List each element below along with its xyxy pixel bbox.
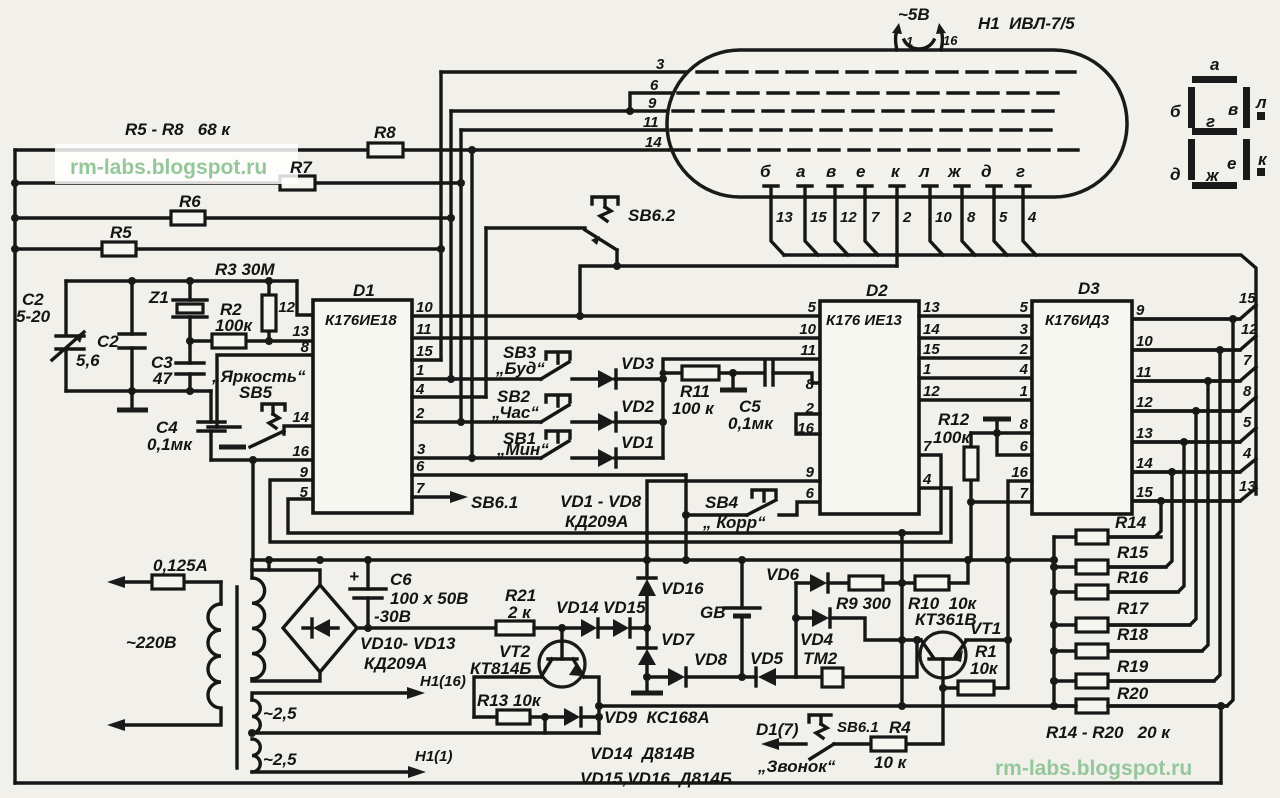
- resistor R12: [933, 410, 978, 560]
- svg-text:б: б: [760, 162, 771, 181]
- svg-text:11: 11: [643, 114, 659, 131]
- svg-text:SB4: SB4: [705, 493, 739, 512]
- wire H1(1) filament: [252, 748, 453, 778]
- svg-text:R8: R8: [374, 123, 396, 142]
- diode VD15: [603, 598, 647, 637]
- bridge rectifier VD10-VD13: [283, 585, 456, 673]
- tube pin 13 lead: [764, 186, 793, 255]
- svg-text:а: а: [1210, 55, 1219, 74]
- wire D3.6 jog up: [997, 433, 1032, 455]
- wire row R7: [15, 181, 461, 184]
- svg-text:SB6.2: SB6.2: [628, 206, 676, 225]
- wire bridge right to R21 row: [357, 626, 496, 629]
- wire D2.9 to -30V rail: [647, 481, 820, 560]
- svg-text:9: 9: [648, 95, 657, 112]
- IC D2 K176IE13: [820, 301, 919, 514]
- svg-text:в: в: [1228, 100, 1238, 119]
- touch contact T at D3.8: [995, 420, 998, 433]
- svg-text:R3 30М: R3 30М: [215, 260, 275, 279]
- node dot x663 VD2: [659, 418, 667, 426]
- fuse FU 0,125A: [107, 556, 221, 589]
- resistor R14: [1054, 513, 1161, 544]
- node dot left border R5: [11, 245, 19, 253]
- svg-text:D3: D3: [1078, 279, 1100, 298]
- node dot rail x270: [265, 556, 273, 564]
- node dot C3 bottom: [186, 387, 194, 395]
- filament arrow 1: [896, 28, 898, 50]
- svg-text:R19: R19: [1117, 657, 1149, 676]
- svg-text:6: 6: [806, 485, 815, 502]
- center tap row wire: [252, 731, 599, 734]
- svg-text:14: 14: [645, 134, 662, 151]
- wire x902 down from y533: [900, 533, 903, 583]
- svg-text:8: 8: [806, 376, 815, 393]
- svg-text:R5: R5: [110, 223, 132, 242]
- wire D1.4 row: [412, 395, 486, 398]
- resistor R7: [280, 176, 315, 190]
- left border bus wire: [13, 150, 16, 783]
- grid3 dashed: [697, 70, 1075, 73]
- node dot rail R14 common: [1050, 556, 1058, 564]
- capacitor C3 47: [188, 341, 191, 391]
- wire H1(16) filament: [252, 673, 466, 700]
- node dot SB3 row x451: [447, 375, 455, 383]
- svg-text:0,125А: 0,125А: [153, 556, 208, 575]
- segment e bar: [1243, 139, 1250, 180]
- ground bar VD7: [631, 691, 663, 696]
- node dot rail x320: [316, 556, 324, 564]
- transformer secondary2: [252, 700, 260, 733]
- wire D2.15 to D3.2: [919, 356, 1032, 359]
- svg-text:4: 4: [1019, 361, 1029, 378]
- svg-text:rm-labs.blogspot.ru: rm-labs.blogspot.ru: [995, 757, 1192, 780]
- svg-text:11: 11: [800, 342, 816, 359]
- wire secondary1 top to rail: [250, 560, 253, 578]
- svg-text:H1 ИВЛ-7/5: H1 ИВЛ-7/5: [978, 14, 1075, 33]
- svg-text:6: 6: [416, 458, 425, 475]
- resistor R2: [212, 334, 246, 348]
- vertical x1208 row11 to R18: [1108, 381, 1208, 651]
- node dot R9-R10 x902: [898, 579, 906, 587]
- svg-text:+: +: [349, 567, 359, 586]
- svg-text:7: 7: [1243, 352, 1252, 369]
- tube pin 5 lead: [987, 186, 1008, 255]
- svg-text:~2,5: ~2,5: [263, 704, 297, 723]
- svg-text:VD8: VD8: [694, 650, 728, 669]
- filament arrow 16: [940, 28, 942, 50]
- svg-text:R4: R4: [889, 718, 911, 737]
- node dot rail x902: [898, 702, 906, 710]
- svg-text:100 к: 100 к: [672, 399, 715, 418]
- right bus branch 7: [1132, 352, 1256, 381]
- bus vertical x472 grid14: [470, 150, 473, 458]
- wire grid9 row: [451, 109, 671, 112]
- grid6 dashed: [678, 91, 1066, 94]
- svg-text:е: е: [1227, 154, 1236, 173]
- right bus branch 15: [1132, 290, 1256, 319]
- svg-text:15: 15: [1136, 484, 1153, 501]
- wire SB1 to VD1: [572, 456, 598, 459]
- node dot x580 on D2.5 row: [576, 312, 584, 320]
- svg-text:13: 13: [1136, 425, 1153, 442]
- wire D3.14 row: [1132, 470, 1240, 473]
- svg-text:12: 12: [1136, 394, 1153, 411]
- svg-text:9: 9: [806, 464, 815, 481]
- node dot VT1 collector x902: [898, 636, 906, 644]
- svg-text:~5В: ~5В: [898, 5, 930, 24]
- wire pin16 node down to -30V rail: [251, 460, 254, 560]
- switch SB6.1 actuator: [809, 715, 831, 724]
- svg-text:13: 13: [776, 209, 793, 226]
- node dot SB1 row x472: [468, 454, 476, 462]
- switch SB2 actuator: [546, 395, 570, 406]
- R14-R20 common vertical: [1052, 537, 1055, 706]
- resistor R8: [368, 143, 403, 157]
- resistor R17: [1050, 599, 1190, 632]
- wire D3.11 row: [1132, 379, 1240, 382]
- node dot VD8 row x647: [643, 673, 651, 681]
- svg-text:R13 10к: R13 10к: [477, 691, 542, 710]
- svg-text:5-20: 5-20: [16, 307, 51, 326]
- svg-text:2: 2: [415, 405, 425, 422]
- svg-text:4: 4: [922, 471, 932, 488]
- oscillator bottom rail wire: [66, 389, 211, 392]
- switch SB3 blade: [541, 362, 569, 379]
- svg-text:12: 12: [840, 209, 857, 226]
- resistor R10: [908, 560, 978, 613]
- node dot rail SB4: [682, 556, 690, 564]
- svg-text:VD16: VD16: [661, 579, 704, 598]
- node dot rail D3.16: [1004, 556, 1012, 564]
- svg-text:7: 7: [871, 209, 880, 226]
- svg-text:R5 - R8 68 к: R5 - R8 68 к: [125, 120, 231, 139]
- transistor VT2 KT814B: [470, 628, 585, 687]
- svg-text:VD3: VD3: [621, 354, 655, 373]
- wire D1.11 to D2.10: [412, 336, 820, 339]
- svg-text:GВ: GВ: [700, 603, 726, 622]
- node dot C2 bottom: [128, 387, 136, 395]
- svg-text:10: 10: [1136, 333, 1153, 350]
- diode VD5: [750, 649, 796, 686]
- bus vertical x486 SB6.2: [484, 228, 487, 397]
- svg-text:15: 15: [1239, 290, 1256, 307]
- sensor TM2: [796, 640, 917, 687]
- diode VD16 vertical: [638, 560, 704, 628]
- diode VD14: [556, 598, 613, 637]
- switch SB6.2 actuator: [592, 197, 618, 207]
- vertical x663 diode bus to D2.11: [663, 359, 820, 458]
- node dot center tap: [248, 729, 256, 737]
- switch SB4 wire left: [686, 513, 747, 516]
- svg-text:КТ361В: КТ361В: [915, 610, 977, 629]
- resistor R6: [171, 211, 205, 225]
- transformer secondary1: [252, 578, 265, 679]
- svg-text:VD15,VD16 Д814Б: VD15,VD16 Д814Б: [580, 769, 732, 788]
- filament arc: [904, 40, 934, 49]
- svg-text:16: 16: [1011, 464, 1028, 481]
- svg-text:3: 3: [656, 56, 665, 73]
- diode VD1: [598, 433, 663, 467]
- svg-text:VD1 - VD8: VD1 - VD8: [560, 492, 642, 511]
- svg-text:13: 13: [292, 323, 309, 340]
- wire D1.3 row SB1: [412, 456, 541, 459]
- segment a bar: [1192, 76, 1237, 83]
- wire AC top link: [252, 570, 320, 585]
- svg-text:2: 2: [902, 209, 912, 226]
- capacitor C4 top lead wire: [209, 391, 212, 460]
- node dot C6 bottom: [364, 624, 372, 632]
- segment zh bar: [1192, 182, 1237, 189]
- node dot left border R6: [11, 214, 19, 222]
- svg-text:R9 300: R9 300: [836, 594, 891, 613]
- node dot rail C6: [364, 556, 372, 564]
- quartz Z1: [188, 281, 191, 341]
- wire D3.7 to R12: [971, 500, 1032, 503]
- grid9 dashed: [673, 109, 1062, 112]
- switch SB5 actuator: [262, 404, 285, 414]
- diode VD8: [668, 650, 756, 686]
- switch SB1 actuator: [546, 431, 570, 442]
- svg-text:R16: R16: [1117, 568, 1149, 587]
- right-bottom border vertical wire: [1219, 706, 1222, 783]
- diode VD3: [598, 354, 663, 388]
- svg-text:д: д: [981, 162, 992, 181]
- svg-text:„Час“: „Час“: [491, 403, 539, 422]
- svg-text:VD4: VD4: [800, 630, 834, 649]
- node dot R6 x451: [447, 214, 455, 222]
- wire row R6: [15, 216, 451, 219]
- grid14 dashed: [669, 148, 1078, 151]
- wire D3.8 row: [971, 431, 1032, 434]
- svg-text:100 x 50В: 100 x 50В: [390, 589, 468, 608]
- wire R21 row to VD14: [562, 626, 581, 629]
- switch SB5 left contact: [208, 425, 240, 428]
- bottom border bus wire: [15, 781, 1221, 784]
- node dot x663 VD3: [659, 375, 667, 383]
- svg-text:14: 14: [923, 321, 940, 338]
- svg-text:11: 11: [1136, 364, 1152, 381]
- svg-text:5: 5: [1020, 299, 1029, 316]
- svg-text:13: 13: [923, 299, 940, 316]
- svg-text:к: к: [1258, 150, 1268, 169]
- node dot R1 left on base wire: [939, 684, 947, 692]
- diode VD4: [796, 609, 921, 649]
- node dot R3 top: [265, 277, 273, 285]
- svg-text:SВ6.1: SВ6.1: [837, 719, 879, 736]
- svg-text:„Звонок“: „Звонок“: [757, 757, 836, 776]
- svg-text:10: 10: [935, 209, 952, 226]
- svg-text:VD9 КС168А: VD9 КС168А: [604, 708, 710, 727]
- svg-text:14: 14: [1136, 455, 1153, 472]
- resistor R1: [943, 642, 1008, 695]
- transformer T primary: [107, 582, 221, 731]
- svg-text:-30В: -30В: [374, 607, 411, 626]
- diode VD9: [564, 708, 710, 727]
- node dot SB2 row x461: [457, 418, 465, 426]
- resistor R3 vertical: [267, 281, 270, 341]
- svg-text:VD6: VD6: [766, 565, 800, 584]
- capacitor C4 plates: [198, 422, 225, 431]
- node dot R12 bottom: [967, 498, 975, 506]
- svg-text:„Мин“: „Мин“: [496, 440, 549, 459]
- svg-text:16: 16: [943, 33, 958, 48]
- wire x270 rail to AC link: [267, 560, 270, 570]
- svg-text:R15: R15: [1117, 543, 1149, 562]
- right bus branch 13: [1132, 478, 1256, 501]
- switch SB2 blade: [541, 405, 569, 422]
- svg-text:R17: R17: [1117, 599, 1150, 618]
- svg-text:6: 6: [1020, 438, 1029, 455]
- node dot R3 bottom: [265, 337, 273, 345]
- svg-text:3: 3: [417, 441, 426, 458]
- battery GB: [700, 560, 760, 677]
- svg-text:12: 12: [1241, 321, 1258, 338]
- svg-text:VD2: VD2: [621, 397, 655, 416]
- bus vertical x461 grid11: [459, 130, 462, 422]
- vertical x1184 row13 to R16: [1108, 442, 1184, 592]
- dot l: [1257, 112, 1265, 120]
- wire D2.13 to D3.5: [919, 314, 1032, 317]
- node dot D3.8 T: [993, 429, 1001, 437]
- resistor R5: [102, 242, 136, 256]
- switch SB4 blade: [747, 500, 776, 515]
- resistor R4: [834, 718, 943, 772]
- svg-text:VT1: VT1: [970, 619, 1001, 638]
- wire SB4 right to D2.6: [779, 502, 820, 515]
- svg-text:10: 10: [416, 299, 433, 316]
- svg-text:15: 15: [416, 343, 433, 360]
- svg-text:VD7: VD7: [661, 630, 696, 649]
- svg-text:К176ИД3: К176ИД3: [1045, 312, 1110, 329]
- segment g bar: [1192, 128, 1237, 135]
- wire D3.10 row: [1132, 348, 1240, 351]
- svg-text:5: 5: [999, 209, 1008, 226]
- switch SB4 actuator: [752, 490, 776, 501]
- bus vertical x451 grid9: [449, 111, 452, 379]
- oscillator top rail wire: [66, 279, 297, 282]
- negative rail wire y707: [599, 704, 1227, 707]
- svg-text:H1(1): H1(1): [415, 748, 453, 765]
- tube pin 4 lead: [1016, 186, 1037, 255]
- node dot TM2-VT1 base row: [913, 636, 921, 644]
- wire D2.2 to D2.16 jumper: [796, 414, 820, 434]
- svg-text:VD10- VD13: VD10- VD13: [360, 634, 456, 653]
- IC D3 K176ID3: [1032, 301, 1132, 514]
- svg-text:0,1мк: 0,1мк: [147, 435, 193, 454]
- node dot Z1 top: [186, 277, 194, 285]
- node dot SB6.2 bottom: [613, 262, 621, 270]
- svg-text:7: 7: [1020, 485, 1029, 502]
- wire D1.6 row: [412, 473, 686, 476]
- svg-text:100к: 100к: [933, 428, 971, 447]
- transformer core: [235, 587, 238, 768]
- ground: [130, 391, 133, 408]
- IC D1 K176IE18: [313, 300, 412, 513]
- node dot pin16 row: [249, 456, 257, 464]
- switch SB5 blade: [250, 431, 284, 447]
- tube pin 12 lead: [828, 186, 857, 255]
- svg-text:л: л: [918, 162, 930, 181]
- wire grid3 row: [441, 70, 689, 73]
- svg-text:15: 15: [923, 341, 940, 358]
- svg-text:14: 14: [292, 409, 309, 426]
- node dot rail GB: [738, 556, 746, 564]
- svg-text:б: б: [1170, 102, 1181, 121]
- node dot VT2 base: [558, 624, 566, 632]
- wire C4 to D1 pin16 row: [211, 458, 313, 461]
- wire D1 pin12 from rail: [297, 281, 313, 315]
- wire SB6.2 bottom row to tube pin2: [580, 250, 897, 316]
- svg-text:D2: D2: [866, 281, 888, 300]
- wire D2.1 to D3.4: [919, 376, 1032, 379]
- svg-text:R6: R6: [179, 192, 201, 211]
- wire row R8 / grid14: [15, 148, 667, 151]
- svg-text:3: 3: [1020, 321, 1029, 338]
- wire secondary1 bottom to bridge: [252, 672, 320, 681]
- svg-text:к: к: [891, 162, 901, 181]
- svg-text:8: 8: [1020, 416, 1029, 433]
- wire D1.9 loop to D2.4: [270, 480, 951, 542]
- node dot VT1 emitter x1008: [1004, 636, 1012, 644]
- switch SB3 actuator: [546, 352, 570, 363]
- svg-text:VD14: VD14: [556, 598, 599, 617]
- svg-text:6: 6: [650, 77, 659, 94]
- node dot rail VD16: [643, 556, 651, 564]
- svg-text:4: 4: [1027, 209, 1037, 226]
- right bus branch 5: [1132, 414, 1256, 442]
- resistor R9: [836, 576, 915, 613]
- vertical x1220 row10 to R19: [1108, 350, 1220, 681]
- svg-text:12: 12: [278, 299, 295, 316]
- svg-text:~220В: ~220В: [126, 633, 177, 652]
- VFD tube H1 IVL-7/5 envelope: [667, 50, 1127, 197]
- wire D3.9 row: [1132, 317, 1240, 320]
- svg-text:0,1мк: 0,1мк: [728, 414, 774, 433]
- svg-text:5: 5: [1243, 414, 1252, 431]
- right bus branch 8: [1132, 383, 1256, 411]
- diode VD6: [766, 565, 849, 592]
- svg-text:9: 9: [1136, 302, 1145, 319]
- svg-text:C6: C6: [390, 570, 412, 589]
- wire x545 down to center tap row: [543, 717, 546, 733]
- svg-text:7: 7: [923, 438, 932, 455]
- resistor R15: [1050, 543, 1166, 574]
- svg-text:КД209А: КД209А: [565, 512, 628, 531]
- wire SB3 to VD3: [572, 377, 598, 380]
- tube pin 10 lead: [923, 186, 952, 255]
- grid11 dashed: [671, 128, 1061, 131]
- svg-text:д: д: [1170, 165, 1181, 184]
- wire grid6 row: [630, 93, 675, 111]
- right bus branch 12: [1132, 321, 1258, 350]
- resistor R18: [1050, 625, 1202, 658]
- svg-text:R7: R7: [290, 158, 313, 177]
- svg-text:R12: R12: [938, 410, 970, 429]
- svg-text:7: 7: [416, 480, 425, 497]
- svg-text:1: 1: [416, 362, 424, 379]
- wire VT2 collector row to R13: [474, 677, 541, 717]
- wire D3.13 row: [1132, 440, 1240, 443]
- svg-text:КД209А: КД209А: [364, 654, 427, 673]
- svg-text:Z1: Z1: [148, 288, 169, 307]
- trimmer capacitor C2 plates: [56, 336, 84, 349]
- svg-text:11: 11: [416, 321, 432, 338]
- wire D1.10 to D2.5: [412, 314, 820, 317]
- node dot grid6: [626, 107, 634, 115]
- vertical x1233 row9 to R20: [1108, 319, 1233, 706]
- svg-text:VD15: VD15: [603, 598, 646, 617]
- node dot R8 row x472: [468, 146, 476, 154]
